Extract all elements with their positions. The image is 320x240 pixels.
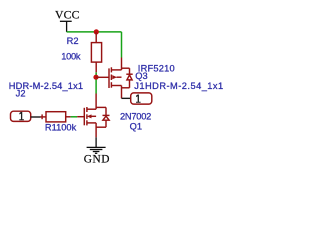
wire R1 to Q1 gate [71,116,78,118]
wire J2 to R1 [31,116,41,118]
svg-text:100k: 100k [61,52,81,62]
transistor Q3 IRF5210 P-MOSFET [96,58,133,99]
node junction at R2 top [94,29,99,34]
wire junction to Q1 drain [95,80,97,94]
svg-text:R2: R2 [67,36,79,46]
J2 pin 1 number tick [41,114,43,119]
svg-text:VCC: VCC [55,9,80,22]
svg-text:Q3: Q3 [135,71,148,81]
svg-text:GND: GND [84,154,110,166]
J2 pin 1 number [19,112,24,120]
wire VCC vertical to Q3 source pin [121,32,123,58]
power symbol VCC [60,21,72,32]
connector J2 [11,111,31,121]
svg-text:J1HDR-M-2.54_1x1: J1HDR-M-2.54_1x1 [134,81,223,91]
svg-text:J2: J2 [16,89,26,99]
transistor Q1 2N7002 N-MOSFET [77,94,109,138]
svg-text:R1100k: R1100k [45,122,77,132]
wire R2 to junction [95,72,97,75]
node junction at Q3 gate / R2 bottom [93,75,98,80]
ground [87,137,106,153]
resistor R2 [91,32,101,72]
resistor R1 [41,112,71,122]
svg-text:Q1: Q1 [130,121,143,131]
wire Q3 drain to J1 [122,97,131,99]
J1 pin 1 number [136,95,141,103]
connector J1 [131,93,152,104]
wire VCC horizontal [67,31,122,33]
svg-text:2N7002: 2N7002 [120,111,151,121]
